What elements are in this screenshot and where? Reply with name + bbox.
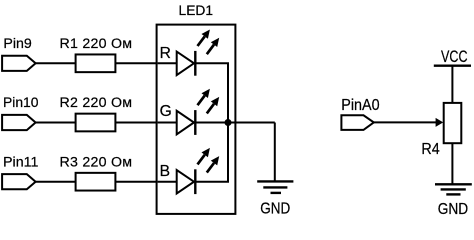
svg-text:VCC: VCC (441, 47, 468, 66)
LED1 package box (157, 25, 236, 214)
cathode wire B (195, 181, 229, 183)
anode wire B (158, 181, 177, 183)
wire Pin10 to R2 (36, 122, 76, 124)
potentiometer R4 (444, 103, 462, 143)
ground GND (R4) (435, 184, 472, 194)
svg-text:B: B (160, 163, 170, 180)
junction node (225, 119, 232, 126)
svg-text:G: G (160, 103, 172, 120)
anode wire R (158, 62, 177, 64)
resistor R3 (76, 173, 116, 191)
diode triangle R (177, 52, 194, 76)
svg-text:R4: R4 (421, 141, 440, 158)
anode wire G (158, 122, 177, 124)
emission arrow R a (198, 30, 210, 47)
resistor R1 (76, 54, 116, 72)
wire R1 to LED1 (115, 62, 157, 64)
svg-text:Pin9: Pin9 (3, 36, 31, 52)
pin Pin9 flag (2, 56, 36, 71)
svg-text:GND: GND (260, 201, 290, 218)
wire Pin11 to R3 (36, 181, 76, 183)
svg-text:PinA0: PinA0 (341, 97, 379, 114)
cathode bar B (194, 169, 196, 194)
cathode bar R (194, 51, 196, 76)
wire PinA0 to R4 wiper (374, 121, 437, 123)
pin Pin11 flag (2, 174, 36, 189)
emission arrow R b (207, 38, 219, 55)
common cathode wire (227, 63, 229, 181)
diode triangle B (177, 170, 194, 194)
wiper arrowhead (436, 118, 444, 127)
svg-text:R3 220 Ом: R3 220 Ом (60, 154, 133, 170)
LED G (green) (158, 89, 275, 135)
LED B (blue) (158, 148, 229, 194)
svg-text:R: R (160, 45, 171, 62)
emission arrow G a (198, 89, 210, 106)
wire R4 to GND (451, 143, 453, 184)
LED R (red) (158, 30, 229, 76)
emission arrow B b (207, 156, 219, 173)
wire R2 to LED1 (115, 122, 157, 124)
cathode wire G to GND (195, 122, 274, 124)
resistor R2 (76, 114, 116, 132)
svg-text:GND: GND (438, 201, 468, 218)
svg-text:R1 220 Ом: R1 220 Ом (60, 36, 133, 52)
wire Pin9 to R1 (36, 62, 76, 64)
ground GND (LED) (257, 181, 293, 193)
emission arrow G b (207, 97, 219, 114)
wire LED1 to GND corner (274, 123, 276, 182)
emission arrow B a (198, 148, 210, 165)
cathode bar G (194, 110, 196, 135)
svg-text:R2 220 Ом: R2 220 Ом (60, 95, 133, 111)
svg-text:LED1: LED1 (179, 3, 214, 18)
pin PinA0 flag (341, 115, 373, 130)
diode triangle G (177, 111, 194, 135)
wire R4 to VCC (451, 66, 453, 103)
svg-text:Pin11: Pin11 (3, 154, 39, 170)
power VCC bar (434, 64, 471, 66)
wire R3 to LED1 (115, 181, 157, 183)
svg-text:Pin10: Pin10 (3, 95, 39, 111)
cathode wire R (195, 62, 229, 64)
pin Pin10 flag (2, 115, 36, 130)
